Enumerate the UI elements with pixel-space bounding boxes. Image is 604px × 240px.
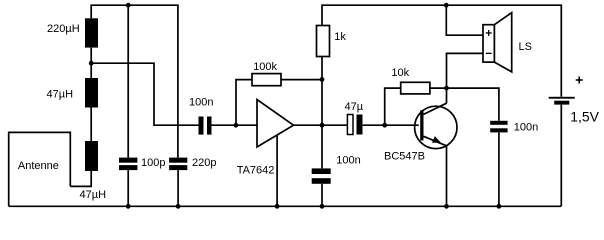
transistor Q1 BC547B [415,103,457,148]
wire between L2 and L3 [90,108,92,142]
svg-text:220p: 220p [192,157,216,169]
inductor L3 47µH [85,141,98,171]
svg-text:47µH: 47µH [47,89,74,101]
svg-text:1,5V: 1,5V [570,109,599,125]
node feedback 1k junction [320,77,325,82]
svg-text:100k: 100k [253,61,277,73]
node base 10k junction [382,123,387,128]
resistor R 100k [252,74,281,86]
op-amp U1 TA7642 [257,100,294,148]
wire 10k to 100n decoupling cap [430,88,499,121]
node L1-L2 tap junction [89,61,94,66]
svg-text:100p: 100p [141,157,165,169]
svg-text:47µ: 47µ [345,101,364,113]
wire TA7642 ground pin [276,135,278,206]
capacitor 220p [169,158,187,171]
svg-text:47µH: 47µH [80,189,107,201]
node ground emitter [444,204,449,209]
wire emitter to ground rail [446,146,448,207]
capacitor 100p [119,158,137,171]
node ground TA7642 [275,204,280,209]
svg-text:1k: 1k [334,31,346,43]
node input feedback junction [234,123,239,128]
wire feedback to 100k [236,80,252,126]
resistor R 1k [317,26,330,57]
svg-text:220µH: 220µH [47,23,80,35]
node ground 100p [126,204,131,209]
wire 220p bottom stub [177,170,179,206]
svg-text:100n: 100n [189,96,213,108]
inductor L2 47µH [85,78,98,108]
wire 100n cap to op-amp input [211,124,257,126]
antenna box [9,132,71,206]
wire top-left rail [91,5,178,157]
inductor L1 220µH [85,18,98,47]
node top rail 100p junction [126,3,131,8]
wire output column [321,57,323,169]
wire battery bottom stub [560,105,562,207]
speaker LS [483,13,512,72]
node ground 100n decoupling [497,204,502,209]
wire 100n decoupling bottom stub [498,132,500,206]
wire bottom ground rail [9,205,562,207]
capacitor C 47µ electrolytic [347,115,353,135]
node op-amp output junction [320,123,325,128]
battery B1 1,5V [549,97,575,105]
svg-text:10k: 10k [391,67,409,79]
svg-text:BC547B: BC547B [384,151,425,163]
node top rail speaker junction [444,3,449,8]
capacitor 100n decoupling [490,121,507,133]
svg-text:100n: 100n [336,155,360,167]
wire tap to 100n input cap [91,63,198,125]
label battery plus [576,77,583,84]
wire L3 to antenna [70,171,91,186]
wire collector column [447,53,484,103]
wire between L1 and L2 [90,48,92,78]
node collector 10k junction [444,86,449,91]
capacitor 100n op-amp output [312,168,331,183]
wire 47u to base [363,124,419,126]
svg-text:LS: LS [519,41,532,53]
svg-text:TA7642: TA7642 [237,164,275,176]
svg-text:Antenne: Antenne [18,160,59,172]
wire 100k to output column [281,79,322,81]
node ground 220p [176,204,181,209]
capacitor 100n input coupling [199,117,212,135]
node ground 100n output cap [320,204,325,209]
wire speaker plus leg [446,5,483,35]
wire base node to 10k [385,88,401,125]
wire 1k top and top-right rail [322,5,561,97]
wire 100p bottom stub [127,170,129,206]
resistor R 10k [401,82,430,94]
svg-text:100n: 100n [514,122,538,134]
wire 100n output cap bottom stub [321,184,323,207]
wire op-amp output [294,124,348,126]
wire 100p top stub [127,5,129,157]
